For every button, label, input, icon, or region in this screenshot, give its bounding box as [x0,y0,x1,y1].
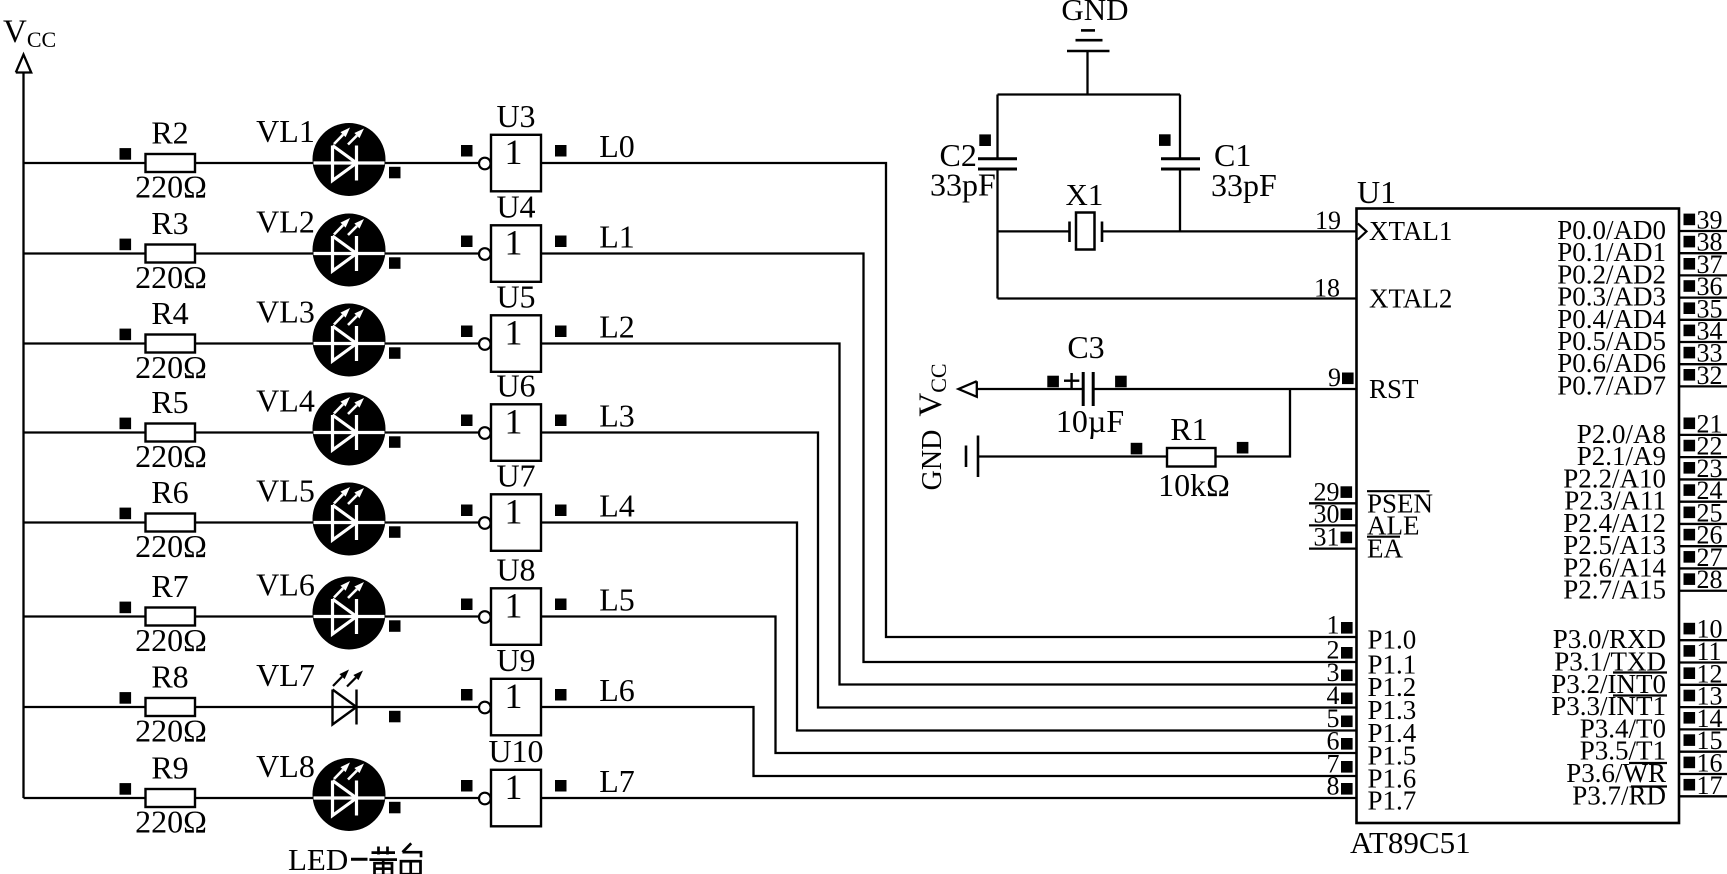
buffer U6 [479,368,541,461]
svg-text:VL3: VL3 [256,294,315,330]
VCC arrow [16,55,31,73]
node square row 7 after buffer [555,780,567,792]
pin PSEN group [1309,477,1433,518]
node square row 2 after buffer [555,326,567,338]
wire row 0 mid [195,162,479,164]
LED VL5 [256,473,385,556]
svg-text:1: 1 [505,223,523,263]
svg-text:19: 19 [1315,206,1341,235]
svg-text:EA: EA [1367,534,1403,564]
LED VL3 [256,294,385,377]
svg-text:R1: R1 [1170,411,1207,447]
svg-text:220Ω: 220Ω [135,622,207,658]
buffer U10 [479,733,544,826]
resistor R7 [135,568,207,658]
wire L1 to P1.1 [541,254,1357,663]
wire L5 to P1.5 [541,617,1357,754]
svg-text:10µF: 10µF [1056,403,1124,439]
wire row 2 mid [195,342,479,344]
svg-text:VL8: VL8 [256,748,315,784]
node square row 2 after LED [389,347,401,359]
svg-text:L6: L6 [599,672,635,708]
svg-text:220Ω: 220Ω [135,713,207,749]
pin 13 square [1684,690,1696,702]
svg-text:8: 8 [1327,772,1340,801]
svg-text:1: 1 [505,676,523,716]
svg-text:1: 1 [505,402,523,442]
svg-text:1: 1 [505,767,523,807]
pin 27 square [1684,551,1696,563]
pin P3.0 text [1553,624,1666,654]
node square row 1 after buffer [555,236,567,248]
pin EA group [1309,523,1403,564]
buffer U5 [479,279,541,372]
node square row 6 after buffer [555,689,567,701]
wire reset lower left [978,455,1167,457]
svg-text:VCC: VCC [913,363,951,416]
pin 24 square [1684,484,1696,496]
wire RST left [977,388,1083,390]
wire row 7 left [24,797,146,799]
wire L0 to P1.0 [541,163,1357,637]
svg-text:GND: GND [1061,0,1128,27]
capacitor C3 [1056,329,1124,439]
node square row 4 after LED [389,526,401,538]
svg-text:U7: U7 [496,458,535,494]
pin 21 square [1684,418,1696,430]
svg-text:XTAL1: XTAL1 [1369,216,1452,246]
pin P3.5 text [1580,736,1666,766]
pin 37 square [1684,258,1696,270]
pin 23 square [1684,462,1696,474]
wire left vertical upper [996,95,998,159]
resistor R3 [135,205,207,295]
pin 13 stub [1679,706,1727,708]
op-amp U1 AT89C51 body [1350,174,1679,860]
node square row 6 after LED [389,711,401,723]
svg-text:P0.7/AD7: P0.7/AD7 [1557,370,1666,400]
pin 35 stub [1679,319,1727,321]
wire L3 to P1.3 [541,433,1357,708]
svg-text:10kΩ: 10kΩ [1158,467,1230,503]
pin 11 stub [1679,661,1727,663]
pin ALE group [1309,499,1419,540]
pin 26 stub [1679,545,1727,547]
pin 32 square [1684,369,1696,381]
pin 7 square [1341,761,1353,773]
pin P3.7 text [1572,780,1667,810]
svg-text:R8: R8 [151,659,188,695]
pin 28 square [1684,573,1696,585]
pin 34 square [1684,325,1696,337]
svg-text:GND: GND [917,430,948,491]
svg-text:R9: R9 [151,750,188,786]
pin 15 stub [1679,751,1727,753]
svg-text:220Ω: 220Ω [135,169,207,205]
pin 16 stub [1679,773,1727,775]
LED VL1 [256,113,385,196]
pin 10 stub [1679,639,1727,641]
svg-text:220Ω: 220Ω [135,438,207,474]
wire L7 to P1.7 [541,797,1357,799]
LED VL4 [256,383,385,466]
svg-text:220Ω: 220Ω [135,259,207,295]
pin 17 square [1684,779,1696,791]
svg-text:XTAL2: XTAL2 [1369,284,1452,314]
pin 1 square [1341,622,1353,634]
svg-text:R3: R3 [151,205,188,241]
pin P3.2 text [1551,669,1667,699]
svg-text:LED: LED [288,842,348,874]
svg-text:VL6: VL6 [256,567,315,603]
buffer U7 [479,458,541,551]
svg-text:U10: U10 [488,733,543,769]
buffer U3 [479,98,541,191]
svg-text:P3.7/RD: P3.7/RD [1572,780,1666,810]
wire row 1 left [24,252,146,254]
pin 38 square [1684,236,1696,248]
svg-text:U4: U4 [496,189,535,225]
svg-text:R7: R7 [151,568,188,604]
pin 9 square [1342,373,1354,385]
svg-text:L4: L4 [599,488,635,524]
pin 10 square [1684,623,1696,635]
crystal X1 [1066,177,1104,250]
wire row 2 left [24,342,146,344]
node square row 5 before buffer [461,599,473,611]
pin 28 stub [1679,590,1727,592]
resistor R4 [135,295,207,385]
svg-text:1: 1 [505,586,523,626]
svg-text:9: 9 [1328,363,1341,392]
resistor R6 [135,474,207,564]
wire row 6 mid [195,706,479,708]
ground symbol left [966,436,978,478]
node square row 4 after buffer [555,505,567,517]
svg-text:R5: R5 [151,384,188,420]
node square row 4 before buffer [461,505,473,517]
pin 2 square [1341,647,1353,659]
node square row 5 after buffer [555,599,567,611]
pin 24 stub [1679,501,1727,503]
node square row 0 input [120,148,132,160]
resistor R2 [135,115,207,205]
svg-text:33pF: 33pF [930,167,996,203]
pin 12 stub [1679,684,1727,686]
svg-text:R6: R6 [151,474,188,510]
ground GND top [1061,0,1128,95]
wire L6 to P1.6 [541,707,1357,776]
node square before R1 [1131,443,1143,455]
node square row 7 before buffer [461,780,473,792]
svg-text:U3: U3 [496,98,535,134]
pin P3.3 text [1551,691,1667,721]
svg-text:U9: U9 [496,642,535,678]
pin 23 stub [1679,478,1727,480]
wire oscillator top [998,93,1181,95]
pin 11 square [1684,645,1696,657]
wire row 5 mid [195,615,479,617]
svg-text:1: 1 [505,492,523,532]
svg-text:31: 31 [1314,523,1340,552]
node square C3 right [1115,376,1127,388]
svg-text:U1: U1 [1357,174,1396,210]
pin 27 stub [1679,567,1727,569]
node square row 1 after LED [389,257,401,269]
pin 3 square [1341,670,1353,682]
pin 25 stub [1679,523,1727,525]
buffer U9 [479,642,541,735]
VCC arrow left [959,381,977,397]
svg-text:28: 28 [1697,565,1723,594]
pin P3.4 text [1580,713,1666,743]
pin 36 stub [1679,296,1727,298]
node square C2 [979,134,991,146]
svg-text:18: 18 [1314,274,1340,303]
svg-text:U8: U8 [496,552,535,588]
svg-text:220Ω: 220Ω [135,804,207,840]
LED VL8 [256,748,385,831]
wire right vertical lower [1179,171,1181,232]
wire row 6 left [24,706,146,708]
node square row 3 input [120,418,132,430]
resistor R9 [135,750,207,840]
pin 16 square [1684,757,1696,769]
pin 34 stub [1679,341,1727,343]
node square row 1 input [120,239,132,251]
pin 15 square [1684,734,1696,746]
svg-text:L7: L7 [599,763,635,799]
svg-text:VL5: VL5 [256,473,315,509]
svg-text:U5: U5 [496,279,535,315]
resistor R8 [135,659,207,749]
pin 37 stub [1679,274,1727,276]
svg-text:220Ω: 220Ω [135,349,207,385]
pin 35 square [1684,302,1696,314]
wire L4 to P1.4 [541,523,1357,731]
wire row 0 left [24,162,146,164]
svg-text:1: 1 [505,313,523,353]
svg-text:L1: L1 [599,219,635,255]
wire row 4 mid [195,521,479,523]
svg-text:C3: C3 [1067,329,1104,365]
svg-text:32: 32 [1697,361,1723,390]
capacitor C2 [930,137,1017,203]
svg-text:17: 17 [1697,771,1723,800]
svg-text:AT89C51: AT89C51 [1350,825,1471,860]
wire row 5 left [24,615,146,617]
pin 17 stub [1679,795,1727,797]
node square row 2 before buffer [461,326,473,338]
pin 4 square [1341,693,1353,705]
pin 14 square [1684,712,1696,724]
capacitor C1 [1161,137,1277,203]
svg-text:R2: R2 [151,115,188,151]
LED VL7 [256,657,363,725]
svg-text:33pF: 33pF [1211,167,1277,203]
wire crystal left [998,230,1070,232]
wire RST right pin 9 [1093,388,1356,390]
wire XTAL1 pin 19 [1102,230,1357,232]
svg-text:L5: L5 [599,582,635,618]
svg-text:L0: L0 [599,128,635,164]
LED VL6 [256,567,385,650]
pin 25 square [1684,507,1696,519]
label LED color [288,842,421,874]
wire row 3 left [24,431,146,433]
pin 5 square [1341,716,1353,728]
node square C1 [1159,134,1171,146]
wire row 1 mid [195,252,479,254]
pin 12 square [1684,667,1696,679]
pin 14 stub [1679,728,1727,730]
svg-text:220Ω: 220Ω [135,528,207,564]
pin 22 square [1684,440,1696,452]
wire L2 to P1.2 [541,344,1357,685]
node square row 7 input [120,783,132,795]
node square row 5 input [120,602,132,614]
node square row 1 before buffer [461,236,473,248]
node square row 7 after LED [389,802,401,814]
wire row 7 mid [195,797,479,799]
pin 33 stub [1679,363,1727,365]
svg-text:L3: L3 [599,398,635,434]
node square row 3 after LED [389,436,401,448]
wire row 4 left [24,521,146,523]
node square row 4 input [120,508,132,520]
svg-text:P1.7: P1.7 [1368,786,1417,816]
svg-text:VL1: VL1 [256,113,315,149]
node square row 0 after LED [389,167,401,179]
node square C3 left [1047,376,1059,388]
wire XTAL2 pin 18 [998,297,1357,299]
pin 39 square [1684,214,1696,226]
pin 36 square [1684,280,1696,292]
pin 6 square [1341,738,1353,750]
node square row 6 before buffer [461,689,473,701]
pin 22 stub [1679,456,1727,458]
clock input triangle XTAL1 [1358,224,1367,240]
pin P3.6 text [1566,758,1667,788]
svg-text:VL4: VL4 [256,383,315,419]
svg-text:P2.7/A15: P2.7/A15 [1563,575,1666,605]
node square row 3 after buffer [555,415,567,427]
pin 32 stub [1679,385,1727,387]
svg-text:VL7: VL7 [256,657,315,693]
node square row 2 input [120,329,132,341]
node square row 3 before buffer [461,415,473,427]
node square after R1 [1237,442,1249,454]
pin 8 square [1341,783,1353,795]
node square row 6 input [120,692,132,704]
node square row 5 after LED [389,620,401,632]
resistor R5 [135,384,207,474]
wire right vertical upper [1179,95,1181,159]
pin 39 stub [1679,230,1727,232]
svg-text:L2: L2 [599,309,635,345]
node square row 0 before buffer [461,145,473,157]
svg-text:U6: U6 [496,368,535,404]
buffer U8 [479,552,541,645]
LED VL2 [256,204,385,287]
resistor R1 [1158,411,1230,503]
node square row 0 after buffer [555,145,567,157]
pin 33 square [1684,347,1696,359]
wire left vertical lower [996,171,998,299]
buffer U4 [479,189,541,282]
pin P3.1 text [1554,647,1666,677]
svg-text:VL2: VL2 [256,204,315,240]
wire reset lower right [1216,389,1291,457]
pin 21 stub [1679,434,1727,436]
pin 26 square [1684,529,1696,541]
svg-text:RST: RST [1369,374,1419,404]
svg-text:X1: X1 [1066,177,1104,212]
svg-text:1: 1 [505,132,523,172]
wire VCC rail [22,73,24,799]
svg-text:VCC: VCC [3,14,56,52]
wire row 3 mid [195,431,479,433]
pin 38 stub [1679,252,1727,254]
svg-text:R4: R4 [151,295,188,331]
